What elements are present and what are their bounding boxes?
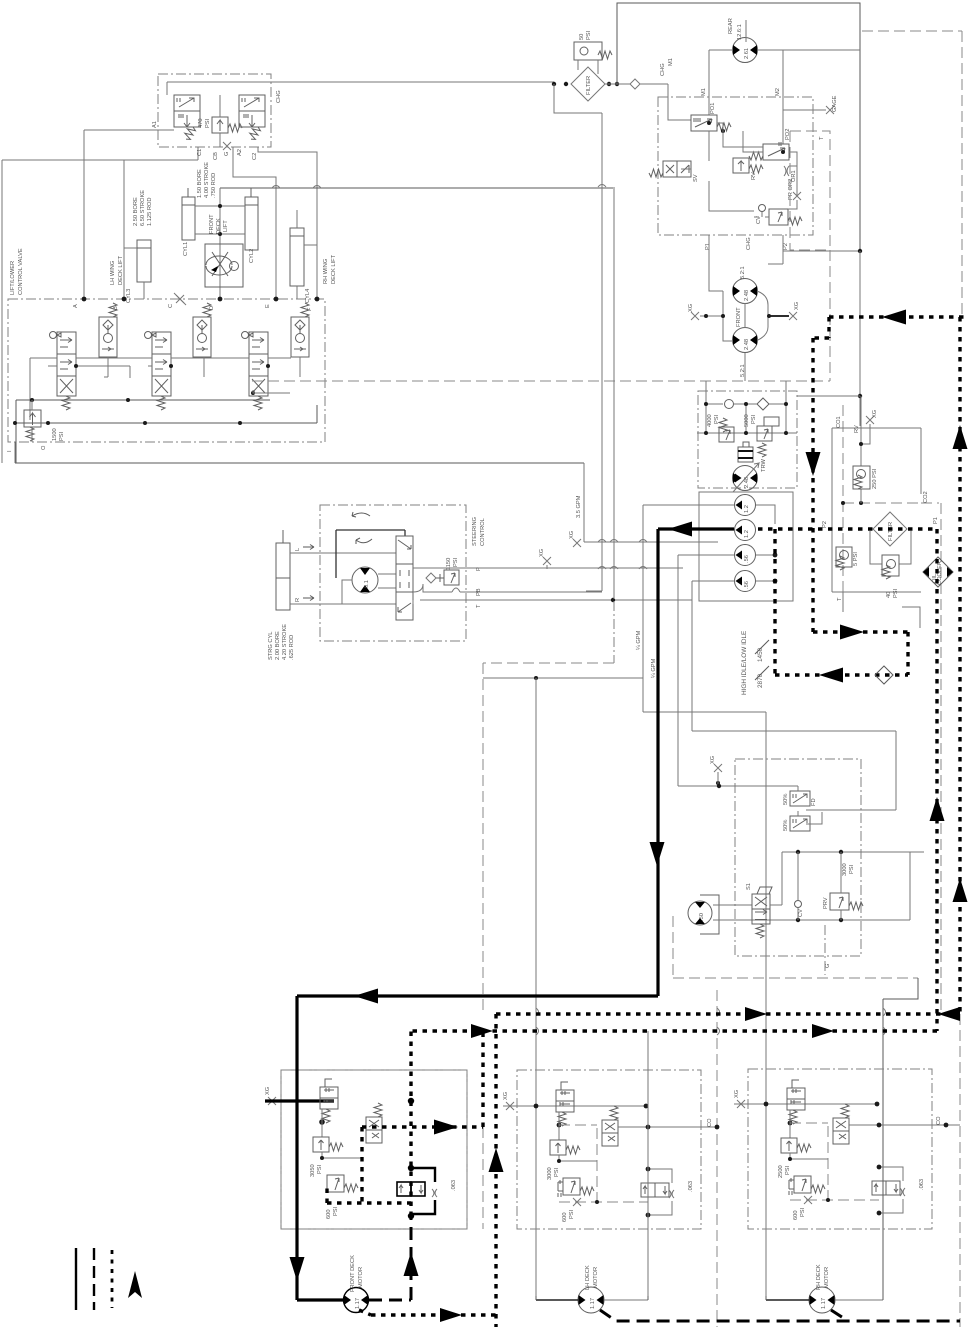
cylinder CYL1 xyxy=(182,188,195,240)
motor front A 2.48 xyxy=(733,279,758,304)
gerotor xyxy=(352,567,378,593)
svg-text:CHG: CHG xyxy=(660,63,666,76)
svg-text:XG: XG xyxy=(539,549,545,557)
svg-text:CB: CB xyxy=(213,152,219,160)
svg-text:PSI: PSI xyxy=(554,1167,560,1177)
top right run xyxy=(829,315,968,318)
svg-text:RV: RV xyxy=(751,172,757,180)
svg-text:MOTOR: MOTOR xyxy=(824,1267,830,1288)
svg-text:T: T xyxy=(819,136,825,140)
svg-text:DECK: DECK xyxy=(216,218,222,234)
svg-text:PSI: PSI xyxy=(317,1164,323,1174)
check CV xyxy=(795,901,802,908)
svg-text:600: 600 xyxy=(326,1210,332,1220)
brake valve LH xyxy=(556,1082,574,1126)
pump group box xyxy=(699,492,793,601)
filter bypass loop w/ 40 PSI xyxy=(870,531,911,564)
svg-text:1.17: 1.17 xyxy=(355,1298,361,1309)
svg-text:E: E xyxy=(265,304,271,308)
svg-text:PSI: PSI xyxy=(569,1209,575,1219)
wire motor ports xyxy=(709,50,860,144)
svg-text:DECK LIFT: DECK LIFT xyxy=(331,254,337,284)
wire T dashdot down xyxy=(613,601,615,663)
wire motor bottom to tank dash xyxy=(744,353,746,381)
wire tank bottom long line xyxy=(15,462,584,464)
vertical right LH xyxy=(647,1031,649,1296)
gray dashed tank line xyxy=(252,380,830,382)
valve SV xyxy=(649,161,691,177)
svg-text:1.50 BORE: 1.50 BORE xyxy=(197,169,203,198)
jump arcs main vertical crossings xyxy=(536,1008,886,1035)
svg-text:C1: C1 xyxy=(197,149,203,156)
wire 3.5gpm drop xyxy=(583,463,585,542)
valve RV xyxy=(733,158,763,173)
node D dot column xyxy=(218,204,222,208)
wire P2 branch xyxy=(783,250,860,252)
arrow down to front motor xyxy=(290,1257,305,1281)
crossover relief LH xyxy=(641,1183,669,1197)
variable pump 2.48 xyxy=(733,463,760,492)
LH motor case drain to dash xyxy=(600,1310,960,1321)
check diamond on return xyxy=(875,666,893,684)
svg-text:1.17: 1.17 xyxy=(590,1298,596,1309)
pilot dash xyxy=(559,1125,597,1202)
svg-text:470: 470 xyxy=(198,119,204,129)
pump 1.2 b xyxy=(735,520,756,541)
relief 3000 LH xyxy=(550,1140,580,1155)
svg-text:2870: 2870 xyxy=(757,673,764,688)
svg-text:2.48: 2.48 xyxy=(744,339,750,350)
svg-text:PSI: PSI xyxy=(453,557,459,567)
wire motor loop xyxy=(723,291,768,341)
arrow down mid xyxy=(650,842,665,866)
svg-text:1.125 ROD: 1.125 ROD xyxy=(147,198,153,226)
cylinder CYL4 RH wing xyxy=(290,210,317,299)
box outline xyxy=(832,428,921,592)
svg-text:3000: 3000 xyxy=(547,1167,553,1180)
svg-text:.063: .063 xyxy=(688,1181,694,1192)
check 250 PSI xyxy=(853,466,870,489)
jump arcs wire crossings xyxy=(272,185,647,570)
svg-text:XG: XG xyxy=(503,1092,509,1100)
svg-text:FRONT: FRONT xyxy=(736,307,742,327)
wire tank gallery xyxy=(15,405,317,423)
svg-text:3000: 3000 xyxy=(842,863,848,876)
filter diamond xyxy=(571,67,605,101)
check 5 PSI xyxy=(836,547,852,570)
svg-text:RH WING: RH WING xyxy=(323,259,329,284)
arrow left on supply xyxy=(668,522,692,537)
svg-text:P1: P1 xyxy=(705,243,711,250)
svg-text:PSI: PSI xyxy=(59,431,65,441)
bold dotted CO front xyxy=(382,1031,483,1127)
svg-text:FD: FD xyxy=(811,798,817,806)
wire 470psi vertical xyxy=(219,95,221,147)
relief valve 470 PSI xyxy=(212,117,242,133)
svg-text:5 PSI: 5 PSI xyxy=(853,552,859,566)
svg-text:CO: CO xyxy=(936,1116,942,1125)
XG on 3.5gpm line xyxy=(573,539,581,547)
svg-text:CONTROL VALVE: CONTROL VALVE xyxy=(18,248,24,295)
valve S1 xyxy=(752,887,772,938)
svg-text:G: G xyxy=(825,964,831,968)
CHG dash-dot box xyxy=(158,74,271,147)
cylinder CYL3 LH wing xyxy=(124,240,151,299)
svg-text:1.17: 1.17 xyxy=(821,1298,827,1309)
valve B check stack xyxy=(99,303,117,357)
svg-text:40: 40 xyxy=(886,592,892,598)
svg-text:A1: A1 xyxy=(152,121,158,128)
motor REAR xyxy=(733,38,758,63)
valve A1 xyxy=(174,95,200,141)
svg-text:1500: 1500 xyxy=(52,428,58,441)
svg-text:FILTER: FILTER xyxy=(586,76,592,95)
bus dash-dot junction dots xyxy=(82,297,87,302)
svg-text:XG: XG xyxy=(569,531,575,539)
svg-text:M1: M1 xyxy=(701,88,707,96)
wire deck feed LH xyxy=(483,677,643,679)
arrow left bottom run xyxy=(354,989,378,1004)
pump .56 a xyxy=(735,545,756,566)
svg-text:PSI: PSI xyxy=(849,864,855,874)
svg-text:XG: XG xyxy=(710,756,716,764)
svg-text:CHG: CHG xyxy=(276,90,282,103)
wire B port vertical xyxy=(123,160,125,299)
relief 600 LH xyxy=(558,1178,594,1197)
svg-text:600: 600 xyxy=(793,1211,799,1221)
valve A solenoid xyxy=(50,332,77,411)
wire fan feed xyxy=(678,569,896,810)
svg-text:50: 50 xyxy=(579,34,585,40)
svg-text:L: L xyxy=(295,548,301,551)
wire chg into pump box xyxy=(668,84,691,120)
drain gallery LH xyxy=(559,1201,648,1203)
wire valve right xyxy=(770,904,782,906)
FD valve a xyxy=(790,791,810,806)
svg-text:2.48: 2.48 xyxy=(744,290,750,301)
svg-text:PR OR2: PR OR2 xyxy=(788,179,794,200)
svg-text:XG: XG xyxy=(265,1087,271,1095)
svg-text:S1: S1 xyxy=(746,883,752,890)
bottom dotted loop xyxy=(411,1029,937,1032)
svg-text:FRONT: FRONT xyxy=(209,214,215,234)
motor front B 2.48 xyxy=(733,328,758,353)
node C restrictor X on bus xyxy=(176,295,184,303)
svg-text:CYL2: CYL2 xyxy=(249,249,255,263)
svg-text:.56: .56 xyxy=(744,581,750,589)
P2/P1 row xyxy=(758,527,937,530)
valve D check stack xyxy=(193,303,211,357)
svg-text:1.2: 1.2 xyxy=(744,530,750,538)
svg-text:6.50 STROKE: 6.50 STROKE xyxy=(140,190,146,226)
svg-text:R: R xyxy=(295,598,301,602)
relief 3050 FRONT xyxy=(313,1137,343,1152)
svg-text:SV: SV xyxy=(693,174,699,182)
check circle xyxy=(725,400,734,409)
svg-text:LIFT: LIFT xyxy=(223,220,229,232)
svg-text:M1: M1 xyxy=(668,58,674,66)
relief 600 RH xyxy=(789,1176,825,1195)
svg-text:PRV: PRV xyxy=(823,897,829,909)
orifice OR1 xyxy=(784,166,789,176)
drain gallery RH xyxy=(790,1199,879,1201)
svg-text:CO1: CO1 xyxy=(836,416,842,428)
svg-text:A: A xyxy=(73,304,79,308)
valve PO1 xyxy=(691,115,731,131)
test diamond on chg line xyxy=(630,79,640,89)
svg-text:C: C xyxy=(168,304,174,308)
svg-text:PSI: PSI xyxy=(586,30,592,40)
bold dotted valve loop front xyxy=(327,1127,496,1315)
CO line LH xyxy=(618,1126,717,1128)
svg-text:P2: P2 xyxy=(783,243,789,250)
valve E solenoid xyxy=(242,332,269,411)
svg-text:FILTER: FILTER xyxy=(888,522,894,541)
XG RH xyxy=(737,1100,745,1108)
wire pump right ports xyxy=(756,505,775,581)
svg-text:4000: 4000 xyxy=(707,414,713,427)
svg-text:.750 ROD: .750 ROD xyxy=(211,173,217,198)
svg-text:LIFT/LOWER: LIFT/LOWER xyxy=(10,261,16,295)
node G xyxy=(223,142,231,150)
relief 1150 PSI xyxy=(444,570,459,585)
svg-text:600: 600 xyxy=(562,1213,568,1223)
svg-text:PSI: PSI xyxy=(205,118,211,128)
svg-text:MOTOR: MOTOR xyxy=(358,1267,364,1288)
svg-text:12.6:1: 12.6:1 xyxy=(737,24,743,40)
svg-text:2500: 2500 xyxy=(778,1165,784,1178)
wire top C1 line xyxy=(2,159,198,161)
pump 1.2 a xyxy=(735,495,756,516)
wire A1 port xyxy=(84,130,174,299)
FD valve b xyxy=(790,816,810,831)
relief 2500 RH xyxy=(781,1138,811,1153)
gray solid right edge verticals xyxy=(859,251,861,426)
svg-text:XG: XG xyxy=(734,1090,740,1098)
svg-text:LH DECK: LH DECK xyxy=(585,1265,591,1290)
svg-text:50%: 50% xyxy=(783,820,789,831)
wire I port xyxy=(14,442,16,463)
wire PB corner xyxy=(586,590,602,592)
svg-text:¼ GPM: ¼ GPM xyxy=(651,658,657,678)
svg-text:XG: XG xyxy=(872,410,878,418)
svg-text:FRONT DECK: FRONT DECK xyxy=(350,1255,356,1292)
svg-text:CONTROL: CONTROL xyxy=(480,518,486,546)
svg-text:CYL4: CYL4 xyxy=(305,289,311,303)
bypass check 50 PSI xyxy=(574,42,612,60)
crossover relief FRONT bold xyxy=(397,1182,425,1196)
svg-text:A2: A2 xyxy=(237,149,243,156)
svg-text:1450: 1450 xyxy=(757,647,764,662)
gray dashed top right xyxy=(862,31,962,317)
steering valve xyxy=(396,536,413,620)
svg-text:REAR: REAR xyxy=(728,18,734,34)
svg-text:TRW: TRW xyxy=(761,459,767,472)
svg-text:GAGE: GAGE xyxy=(832,95,838,112)
check diamond xyxy=(757,398,769,410)
svg-text:¼ GPM: ¼ GPM xyxy=(636,630,642,650)
svg-text:CO2: CO2 xyxy=(923,491,929,503)
svg-text:PSI: PSI xyxy=(785,1165,791,1175)
svg-text:CV: CV xyxy=(798,909,804,917)
valve PR xyxy=(769,209,802,225)
svg-text:T: T xyxy=(476,604,482,608)
valve A2 xyxy=(239,95,265,141)
svg-text:250 PSI: 250 PSI xyxy=(872,468,878,489)
solenoid valve LH xyxy=(602,1106,618,1146)
solenoid valve FRONT xyxy=(366,1103,382,1143)
svg-text:CHG: CHG xyxy=(746,237,752,250)
svg-text:P2: P2 xyxy=(822,521,828,528)
svg-text:T: T xyxy=(837,597,843,601)
svg-text:.625 ROD: .625 ROD xyxy=(289,635,295,660)
svg-text:XG: XG xyxy=(688,304,694,312)
relief 4000 PSI xyxy=(719,418,734,442)
wire valve E drain to chg dash xyxy=(253,390,290,393)
motor FRONT xyxy=(344,1288,369,1313)
svg-text:RV: RV xyxy=(854,425,860,433)
CO2 long-dash xyxy=(843,503,941,1010)
svg-text:CO: CO xyxy=(707,1118,713,1127)
stroke control xyxy=(738,442,753,462)
svg-text:DECK LIFT: DECK LIFT xyxy=(118,255,124,285)
wire gray gallery 1 xyxy=(30,358,291,420)
G drain xyxy=(824,925,826,975)
svg-text:HIGH IDLE/LOW IDLE: HIGH IDLE/LOW IDLE xyxy=(741,631,748,695)
svg-text:O: O xyxy=(41,445,47,450)
gray dash to deck feeds xyxy=(483,663,614,1013)
svg-text:.063: .063 xyxy=(451,1180,457,1191)
svg-text:2.00 BORE: 2.00 BORE xyxy=(275,631,281,660)
svg-text:CYL1: CYL1 xyxy=(183,242,189,256)
fan return dash xyxy=(673,916,918,978)
svg-text:C2: C2 xyxy=(252,153,258,160)
XG right of motors (bold) xyxy=(769,315,789,317)
internal wires pump box xyxy=(681,123,797,217)
valve PRV xyxy=(830,893,863,910)
RH motor case drain diag xyxy=(831,1310,848,1321)
brake valve FRONT xyxy=(320,1079,338,1123)
svg-text:5.2:1: 5.2:1 xyxy=(740,266,746,279)
svg-text:PSI: PSI xyxy=(714,414,720,424)
svg-text:2.50 BORE: 2.50 BORE xyxy=(133,197,139,226)
oil cooler diamond xyxy=(923,557,953,587)
svg-text:MOTOR: MOTOR xyxy=(593,1267,599,1288)
wire cyl cross lines xyxy=(195,206,245,234)
svg-text:PSI: PSI xyxy=(751,414,757,424)
brake valve RH xyxy=(787,1080,805,1124)
svg-text:CYL3: CYL3 xyxy=(126,289,132,303)
wire branch to suction xyxy=(554,84,602,591)
flow control valve front deck xyxy=(205,244,243,287)
svg-text:50%: 50% xyxy=(783,794,789,805)
pump .56 b xyxy=(735,571,756,592)
top gallery xyxy=(752,852,924,920)
wire gallery 2 xyxy=(48,366,152,378)
svg-text:4.20 STROKE: 4.20 STROKE xyxy=(282,624,288,660)
orifice OR2 xyxy=(793,192,801,200)
svg-text:PSI: PSI xyxy=(333,1206,339,1216)
motor RH xyxy=(809,1287,835,1313)
valve C solenoid xyxy=(145,332,172,411)
svg-text:PSI: PSI xyxy=(893,588,899,598)
svg-text:5000: 5000 xyxy=(744,414,750,427)
svg-text:XG: XG xyxy=(794,302,800,310)
steering wheel arcs xyxy=(352,512,372,544)
filter diamond on P1 xyxy=(873,512,907,546)
pilot dash xyxy=(790,1123,828,1200)
svg-text:RH DECK: RH DECK xyxy=(816,1264,822,1290)
wire from high idle xyxy=(692,612,718,746)
XG FRONT bold xyxy=(268,1097,276,1105)
svg-text:3050: 3050 xyxy=(310,1164,316,1177)
wire C1 port xyxy=(197,147,199,160)
mech feedback link xyxy=(336,530,405,578)
relief valve 1500 PSI xyxy=(24,410,41,441)
valve PO2 xyxy=(749,142,789,160)
XG tap xyxy=(866,416,874,424)
fan motor .50 xyxy=(688,901,712,925)
svg-text:6.1: 6.1 xyxy=(364,580,370,588)
wire P PB T xyxy=(413,567,683,569)
svg-text:4.00 STROKE: 4.00 STROKE xyxy=(204,162,210,198)
svg-text:2.61: 2.61 xyxy=(744,48,750,59)
svg-text:.56: .56 xyxy=(744,555,750,563)
outer box xyxy=(617,3,860,426)
solenoid valve RH xyxy=(833,1104,849,1144)
wire M lines down xyxy=(709,235,783,291)
relief 5000 PSI xyxy=(757,417,779,457)
svg-text:1.2: 1.2 xyxy=(744,505,750,513)
wire C2 to RH wing xyxy=(258,147,317,299)
svg-text:.063: .063 xyxy=(919,1179,925,1190)
svg-text:PB: PB xyxy=(476,588,482,596)
wire cyl to valve xyxy=(290,553,396,604)
svg-text:.50: .50 xyxy=(699,913,705,921)
svg-text:P1: P1 xyxy=(933,517,939,524)
valve F check stack xyxy=(291,303,309,357)
svg-text:STEERING: STEERING xyxy=(472,517,478,546)
wire deck feed RH xyxy=(643,712,766,1296)
check CV xyxy=(759,205,766,212)
wire valve B drain xyxy=(104,357,300,377)
crossover relief RH xyxy=(872,1181,900,1195)
svg-text:LH WING: LH WING xyxy=(110,261,116,285)
XG LH xyxy=(506,1102,514,1110)
wire pump left ports xyxy=(643,505,734,712)
XG on P line xyxy=(543,557,551,565)
wire A2 to front deck line xyxy=(233,147,276,299)
svg-text:PO1: PO1 xyxy=(710,103,716,114)
valve block dash-dot box xyxy=(8,299,325,442)
motor LH xyxy=(578,1287,604,1313)
CO line RH xyxy=(849,1124,960,1126)
outer box left border xyxy=(1,160,3,463)
wire front deck supply xyxy=(220,187,613,189)
svg-text:PSI: PSI xyxy=(800,1207,806,1217)
wire CHG top line xyxy=(167,81,554,83)
svg-text:G: G xyxy=(224,152,230,156)
XG left of motors xyxy=(691,312,699,320)
relief 600 FRONT xyxy=(327,1175,358,1192)
svg-text:M2: M2 xyxy=(775,88,781,96)
CO1 long-dash line xyxy=(842,405,844,592)
steering cylinder xyxy=(276,530,290,610)
wire spare xyxy=(691,600,693,731)
GAGE test xyxy=(783,109,826,111)
cylinder CYL2 xyxy=(245,188,258,250)
svg-text:STRG CYL: STRG CYL xyxy=(268,632,274,660)
